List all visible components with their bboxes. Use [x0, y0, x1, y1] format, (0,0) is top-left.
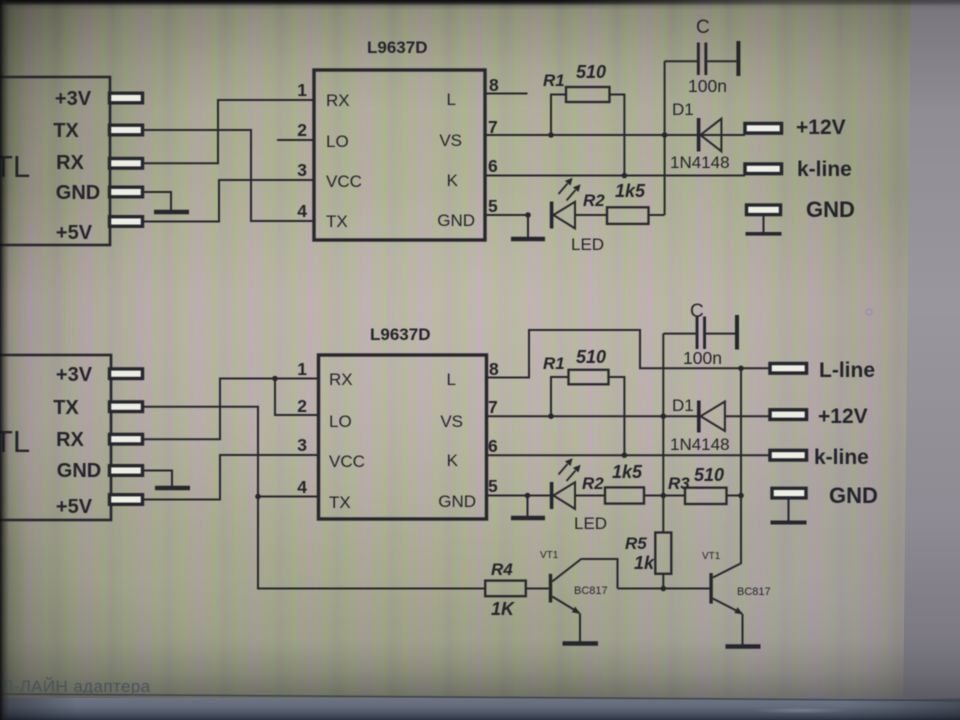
svg-text:3: 3: [297, 435, 307, 455]
ground (U1 pin5, top): stem: [527, 215, 529, 237]
svg-text:2: 2: [297, 396, 307, 416]
svg-text:LO: LO: [329, 412, 352, 431]
pad J1 +5V: [110, 217, 143, 227]
svg-text:6: 6: [488, 436, 498, 456]
svg-text:VCC: VCC: [326, 172, 362, 191]
LED (bottom): emission arrow 2: [567, 465, 581, 481]
transistor VT1 (left): emitter with arrow: [552, 597, 580, 643]
wire R1 left to VS line (bottom): [551, 377, 569, 416]
svg-text:BC817: BC817: [737, 586, 771, 598]
svg-text:D1: D1: [672, 396, 694, 415]
node junction pin4-R4 branch: [255, 494, 261, 500]
connector J2 box (TTL header, bottom circuit): [0, 355, 111, 520]
pad J1 +3V: [110, 93, 143, 103]
svg-text:BC817: BC817: [574, 585, 608, 597]
svg-text:R3: R3: [668, 474, 690, 493]
node junction pin1-LO: [272, 376, 278, 382]
svg-text:7: 7: [488, 397, 498, 417]
pad J1 RX: [110, 159, 143, 169]
diode D1 1N4148 (bottom): [697, 401, 770, 433]
LED (top): emission arrow 2: [567, 184, 581, 200]
wire J2.+5V to U2 pin3: [142, 455, 319, 500]
svg-text:K: K: [447, 451, 459, 470]
wire L-line vertical B (bottom): [713, 368, 741, 577]
wire J2.TX to U2 pin4: [142, 407, 319, 497]
wire R4 to VT1 base: [526, 588, 549, 590]
node junction R1-VS (bottom): [548, 413, 554, 419]
node junction VS-C: [662, 132, 668, 138]
wire R2 to VS rail (top): [649, 214, 665, 216]
pad J2 +3V: [110, 369, 143, 379]
svg-text:+5V: +5V: [56, 222, 93, 244]
wire U1 pin8 L stub: [485, 93, 528, 95]
wire R1 left to VS line: [551, 95, 566, 136]
wire R1 right to K line (bottom): [609, 377, 625, 455]
svg-text:1k: 1k: [634, 553, 655, 573]
wire U1 pin7 VS line: [485, 134, 745, 136]
ground terminal GND (top): pad: [747, 205, 781, 215]
wire U2 pin8 L to L-line pad: [487, 330, 771, 378]
svg-text:+5V: +5V: [56, 496, 93, 518]
svg-text:GND: GND: [829, 483, 878, 508]
svg-text:VS: VS: [440, 412, 463, 431]
svg-text:8: 8: [489, 359, 499, 379]
svg-text:GND: GND: [437, 211, 475, 230]
IC U2 L9637D box (bottom): [319, 355, 487, 519]
ground (U2 pin5): bar: [511, 516, 545, 521]
terminal bar (C right, bottom): [735, 315, 739, 350]
svg-text:k-line: k-line: [814, 446, 869, 469]
svg-text:510: 510: [576, 347, 606, 367]
ground terminal GND (bottom): stem and bar: [771, 498, 807, 523]
resistor R3 510: [685, 488, 727, 504]
wire J1.TX to U1 pin4: [142, 130, 314, 221]
pad k-line (bottom): [770, 450, 807, 460]
wire VS rail vertical A (bottom): [662, 334, 664, 533]
wire pin4 branch down to R4: [258, 497, 485, 589]
node junction pin5-LED (bottom): [525, 493, 531, 499]
svg-text:TX: TX: [53, 120, 79, 142]
svg-text:510: 510: [694, 465, 724, 485]
capacitor C 100n (top): [665, 43, 737, 76]
svg-text:TX: TX: [329, 493, 351, 512]
node junction B-R3: [738, 493, 744, 499]
resistor R5 1k (vertical): [655, 533, 671, 574]
svg-text:R2: R2: [582, 474, 604, 493]
ground (U2 pin5): stem: [527, 496, 529, 517]
svg-text:1N4148: 1N4148: [670, 153, 730, 172]
LED (bottom): cathode bar: [550, 482, 554, 509]
node junction VS-A (bottom): [661, 413, 667, 419]
svg-text:K: K: [447, 171, 459, 190]
wire U2 pin7 VS line to D1: [487, 415, 698, 417]
svg-text:GND: GND: [806, 197, 855, 222]
svg-text:+3V: +3V: [55, 88, 92, 110]
wire J1.GND stub: [142, 192, 171, 210]
transistor VT1 (left BC817): base bar: [549, 574, 552, 603]
pad +12V (top): [745, 124, 782, 134]
svg-text:100n: 100n: [683, 348, 722, 368]
terminal bar (C right, top): [736, 41, 740, 76]
svg-text:TX: TX: [326, 212, 348, 231]
resistor R4 1K: [485, 581, 526, 597]
svg-text:3: 3: [297, 160, 307, 180]
transistor VT1 (right): emitter with arrow: [713, 599, 743, 646]
svg-text:LO: LO: [326, 132, 349, 151]
svg-text:+3V: +3V: [56, 364, 93, 386]
ground (U1 pin5, top): bar: [511, 237, 545, 242]
svg-text:100n: 100n: [688, 76, 727, 96]
ground (VT1 right emitter): [726, 644, 761, 649]
svg-text:4: 4: [297, 201, 307, 221]
wire U1 pin6 K line to k-line pad: [485, 175, 745, 177]
ground (J2 GND, bottom): [155, 486, 190, 491]
svg-text:RX: RX: [56, 429, 84, 451]
svg-text:R1: R1: [543, 354, 565, 373]
LED (bottom): emission arrow 1: [559, 458, 573, 474]
svg-text:RX: RX: [329, 370, 353, 389]
node junction L-B: [738, 366, 744, 372]
LED (top): emission arrow 1: [559, 178, 573, 194]
wire R5 bottom to node X: [662, 574, 664, 589]
svg-text:k-line: k-line: [797, 158, 852, 181]
wire U2 pin5 GND stub: [487, 495, 551, 497]
capacitor C 100n (bottom): [663, 317, 735, 350]
resistor R2 1k5 (bottom): [605, 487, 644, 503]
ground (J1 GND, top): [154, 210, 189, 215]
svg-text:8: 8: [489, 75, 499, 95]
svg-text:510: 510: [576, 62, 606, 82]
svg-text:LED: LED: [571, 235, 604, 254]
svg-text:1k5: 1k5: [612, 462, 643, 482]
node junction R1-VS: [548, 132, 554, 138]
pad J2 GND: [110, 466, 143, 476]
pad J1 TX: [110, 125, 143, 135]
LED (bottom): triangle: [553, 482, 575, 509]
svg-text:TX: TX: [53, 397, 79, 419]
svg-text:6: 6: [488, 156, 498, 176]
svg-text:GND: GND: [438, 492, 476, 511]
svg-text:+12V: +12V: [796, 116, 846, 139]
pad J2 TX: [110, 402, 143, 412]
svg-text:L9637D: L9637D: [370, 325, 430, 344]
wire J1.RX to U1 pin1: [142, 100, 314, 163]
svg-text:L9637D: L9637D: [367, 38, 427, 57]
wire rail A to R3: [663, 495, 685, 497]
svg-text:VCC: VCC: [329, 452, 365, 471]
node junction pin5-LED: [525, 212, 531, 218]
resistor R1 510 (top): [566, 87, 610, 102]
wire U2 pin6 K line to k-line pad: [487, 454, 771, 456]
svg-text:1K: 1K: [491, 599, 516, 619]
node junction X (R5/VT1 collector/VT2 base): [661, 586, 667, 592]
svg-text:GND: GND: [56, 182, 100, 204]
LED (top): cathode bar: [550, 202, 554, 229]
wire LED to R2 (bottom): [575, 495, 605, 497]
wire J2.GND stub: [142, 471, 172, 487]
wire node X row: [618, 588, 710, 590]
svg-text:LED: LED: [574, 514, 607, 533]
svg-text:+12V: +12V: [818, 405, 868, 428]
wire LO jog to U2 pin2: [275, 379, 319, 416]
pad J2 RX: [110, 434, 143, 444]
resistor R1 510 (bottom): [569, 370, 609, 385]
svg-text:1N4148: 1N4148: [670, 435, 730, 454]
ground terminal GND (top): stem and bar: [746, 215, 782, 234]
svg-text:D1: D1: [672, 100, 694, 119]
svg-text:R2: R2: [583, 191, 605, 210]
transistor VT1 (right BC817): base wire: [663, 588, 709, 590]
ground terminal GND (bottom): pad: [772, 488, 806, 498]
wire LED to R2 (top): [575, 214, 607, 216]
pad J1 GND: [110, 187, 143, 197]
svg-text:1: 1: [297, 80, 307, 100]
dust artifact circle: [866, 309, 872, 315]
wire U1 pin2 LO stub: [277, 139, 314, 141]
wire J1.+5V to U1 pin3: [142, 180, 314, 222]
svg-text:VT1: VT1: [702, 551, 721, 562]
svg-text:RX: RX: [56, 152, 84, 174]
ground (VT1 left emitter): [563, 641, 599, 646]
svg-text:L: L: [447, 90, 456, 109]
diode D1 1N4148 (top): [697, 118, 745, 152]
svg-text:GND: GND: [57, 460, 101, 482]
svg-text:1: 1: [297, 359, 307, 379]
svg-text:2: 2: [297, 120, 307, 140]
node junction R1-K: [622, 173, 628, 179]
transistor VT1 (right): base bar: [709, 573, 712, 604]
transistor VT1 (left): collector path: [552, 559, 617, 589]
svg-text:4: 4: [297, 477, 307, 497]
wire R1 right to K line: [610, 95, 625, 176]
pad J2 +5V: [110, 495, 143, 505]
LED (top): triangle: [553, 202, 575, 229]
svg-text:R1: R1: [543, 71, 565, 90]
wire J2.RX to U2 pin1: [142, 379, 319, 440]
node junction A-R2R3 (bottom): [661, 493, 667, 499]
svg-text:VT1: VT1: [540, 550, 559, 561]
status bar separator line: [0, 694, 960, 701]
node junction R1-K (bottom): [622, 452, 628, 458]
wire R3 to vertical B: [727, 495, 742, 497]
svg-text:R5: R5: [625, 534, 647, 553]
svg-text:1k5: 1k5: [615, 181, 646, 201]
wire VS rail vertical (C/R2 branch, top): [664, 61, 666, 215]
IC U1 L9637D box (top): [314, 70, 485, 240]
svg-text:5: 5: [488, 476, 498, 496]
svg-text:C: C: [690, 301, 704, 322]
svg-text:L: L: [447, 370, 456, 389]
pad L-line (bottom): [770, 364, 807, 374]
pad +12V (bottom): [770, 410, 807, 420]
wire R2 to rail A (bottom): [644, 495, 663, 497]
svg-text:C: C: [696, 17, 710, 38]
connector J1 box (TTL header, top circuit): [0, 77, 110, 245]
svg-text:RX: RX: [326, 91, 350, 110]
resistor R2 1k5 (top): [607, 207, 649, 224]
pad k-line (top): [745, 164, 782, 174]
svg-text:L-line: L-line: [819, 359, 875, 382]
wire U1 pin5 GND stub: [485, 214, 528, 216]
svg-text:5: 5: [488, 196, 498, 216]
svg-text:VS: VS: [439, 131, 462, 150]
svg-text:Л-ЛАЙН адаптера: Л-ЛАЙН адаптера: [2, 677, 151, 696]
svg-text:R4: R4: [491, 560, 513, 579]
